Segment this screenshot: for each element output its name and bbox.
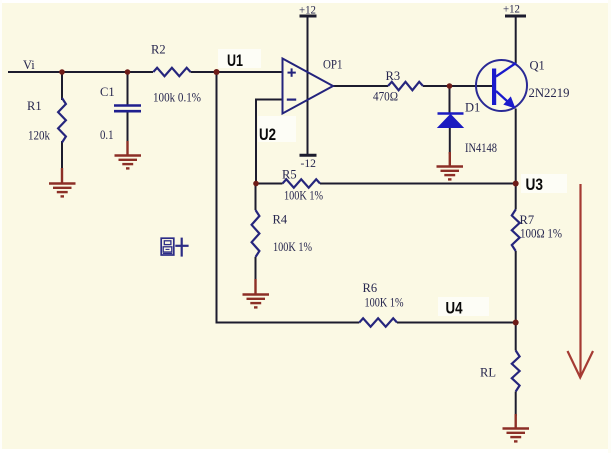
- svg-text:U1: U1: [227, 52, 243, 70]
- resistor R1: [58, 98, 66, 143]
- net label U3: [521, 174, 567, 194]
- ground under R4: [243, 279, 270, 307]
- transistor Q1: [476, 60, 527, 111]
- node U3 junction: [513, 181, 519, 187]
- svg-text:Vi: Vi: [23, 58, 35, 72]
- net label U1: [218, 49, 261, 70]
- resistor R6: [359, 318, 397, 326]
- op-amp OP1: [283, 59, 334, 114]
- red current arrow: [568, 184, 594, 378]
- svg-text:R6: R6: [363, 281, 378, 295]
- svg-text:R3: R3: [386, 69, 401, 83]
- svg-text:U2: U2: [259, 126, 276, 144]
- svg-text:100K 1%: 100K 1%: [273, 240, 312, 254]
- ground under C1: [115, 141, 142, 168]
- wire op-amp output to R3: [333, 85, 388, 87]
- svg-text:U3: U3: [526, 176, 544, 194]
- net label U4: [438, 297, 489, 318]
- wire inverting input to U2 node: [256, 100, 283, 184]
- wire C1 to ground: [127, 112, 129, 143]
- svg-text:C1: C1: [100, 85, 115, 99]
- wire RL branch: [515, 323, 517, 351]
- node U1 junction: [214, 69, 220, 75]
- node U4 junction: [513, 320, 519, 326]
- svg-text:RL: RL: [480, 366, 496, 380]
- svg-text:D1: D1: [465, 101, 480, 115]
- svg-text:R2: R2: [151, 43, 166, 57]
- wire R6 to U4: [397, 322, 516, 324]
- node junction C1: [125, 69, 131, 75]
- node junction Vi/R1: [59, 69, 65, 75]
- wire D1 to ground: [449, 127, 451, 154]
- svg-text:-12: -12: [301, 156, 317, 170]
- svg-text:100K 1%: 100K 1%: [365, 296, 404, 310]
- wire Q1 emitter down to U3: [515, 109, 517, 184]
- ground under R1: [49, 168, 76, 196]
- wire C1 branch down: [127, 72, 129, 105]
- svg-text:2N2219: 2N2219: [529, 86, 570, 100]
- svg-text:IN4148: IN4148: [465, 141, 497, 155]
- resistor R7: [512, 210, 520, 252]
- svg-text:470Ω: 470Ω: [373, 90, 398, 104]
- wire R4 branch down: [255, 184, 257, 211]
- wire Vi input row: [8, 71, 153, 73]
- ground under D1: [437, 152, 464, 179]
- svg-text:120k: 120k: [28, 129, 51, 143]
- resistor R2: [153, 68, 190, 76]
- wire R1 branch down: [61, 72, 63, 100]
- wire D1 branch down: [449, 86, 451, 114]
- power +12 opamp terminal: [299, 3, 317, 17]
- power +12 Q1 terminal: [503, 2, 526, 17]
- ground under RL: [503, 414, 530, 441]
- svg-text:+12: +12: [503, 2, 520, 16]
- wire R4 to ground: [255, 257, 257, 281]
- svg-text:R7: R7: [520, 213, 535, 227]
- text figure ten (Chinese): [161, 238, 188, 257]
- svg-text:R1: R1: [27, 99, 42, 113]
- wire R7 branch: [515, 184, 517, 210]
- svg-text:0.1: 0.1: [100, 128, 114, 142]
- diode D1: [438, 114, 464, 128]
- svg-text:R5: R5: [282, 168, 297, 182]
- wire R7 to U4: [515, 251, 517, 323]
- wire R1 to ground: [61, 141, 63, 170]
- svg-text:+12: +12: [299, 3, 316, 17]
- power -12 opamp terminal: [300, 155, 317, 170]
- wire Q1 collector to +12: [515, 16, 517, 64]
- resistor R3: [388, 82, 423, 90]
- resistor RL: [512, 351, 520, 392]
- wire R3 to Q1 base: [423, 85, 492, 87]
- svg-text:U4: U4: [446, 300, 464, 318]
- wire op-amp power vertical: [307, 16, 309, 155]
- resistor R4: [252, 210, 260, 257]
- resistor R5: [283, 179, 321, 187]
- svg-text:R4: R4: [273, 213, 288, 227]
- svg-text:100Ω 1%: 100Ω 1%: [520, 227, 562, 241]
- wire RL to ground: [515, 392, 517, 417]
- wire R5 to U3: [320, 183, 516, 185]
- svg-text:100k 0.1%: 100k 0.1%: [153, 91, 201, 105]
- svg-text:OP1: OP1: [323, 58, 343, 72]
- node U2/R5 junction: [253, 181, 259, 187]
- svg-text:Q1: Q1: [530, 59, 545, 73]
- node junction D1 top: [447, 83, 453, 89]
- net label U2: [258, 116, 296, 144]
- svg-text:100K 1%: 100K 1%: [284, 189, 323, 203]
- wire feedback U1 down and across to R6: [217, 72, 360, 323]
- capacitor C1: [114, 106, 141, 112]
- wire R2 to op-amp + input: [191, 71, 283, 73]
- wire U2 node to R5: [256, 183, 283, 185]
